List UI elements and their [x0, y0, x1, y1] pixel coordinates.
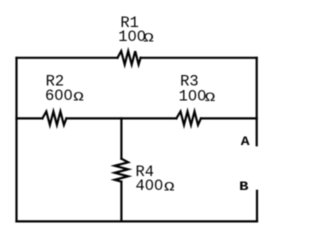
wire: top, right of R1	[141, 57, 257, 59]
svg-text:Ω: Ω	[73, 90, 84, 105]
svg-text:B: B	[239, 180, 249, 194]
wire: left side vertical	[15, 58, 17, 222]
svg-text:Ω: Ω	[205, 90, 216, 105]
resistor R1	[118, 51, 141, 64]
wire: middle, left of R2	[17, 117, 43, 119]
wire: top, left of R1	[17, 57, 118, 59]
resistor R3	[176, 112, 201, 125]
resistor R4	[115, 159, 128, 182]
zero dot covers	[58, 34, 204, 187]
wire: middle vertical below R4	[120, 182, 122, 222]
wire: right side vertical to node A	[256, 58, 258, 146]
wire: bottom	[17, 220, 258, 222]
wire: middle, right of R3	[201, 117, 257, 119]
wire: middle vertical above R4	[120, 118, 122, 158]
svg-text:Ω: Ω	[164, 179, 175, 194]
wire: node B vertical stub	[256, 191, 258, 222]
resistor R2	[42, 112, 66, 125]
wire: middle, between R2 and R3	[66, 117, 176, 119]
svg-text:A: A	[241, 135, 251, 150]
svg-text:Ω: Ω	[143, 31, 154, 46]
